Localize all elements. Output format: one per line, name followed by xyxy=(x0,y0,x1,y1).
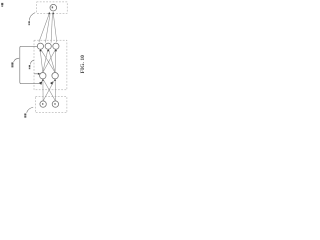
node H1a xyxy=(37,43,43,49)
sheet header fragment (tiny rotated text, top-left) xyxy=(1,3,3,7)
node H1c xyxy=(53,43,59,49)
label 1006 leader arc (to hidden box) xyxy=(30,60,34,64)
svg-text:FIG. 10: FIG. 10 xyxy=(80,55,86,74)
wire lattice row2 to row1 (6 strokes) xyxy=(40,50,56,73)
label 1008 blob xyxy=(11,62,13,67)
input node X2 xyxy=(52,101,58,107)
short input arrow into node H2a xyxy=(34,73,38,75)
hidden layers dashed box B2 xyxy=(34,40,67,90)
node H1b xyxy=(45,43,51,49)
label 1004 blob xyxy=(24,114,26,118)
input layer dashed box B3 xyxy=(35,97,67,113)
mark inside output node xyxy=(52,6,53,8)
label 1010 blob xyxy=(28,21,30,25)
node H2b xyxy=(52,73,58,79)
input node X1 xyxy=(40,101,46,107)
output layer dashed box B1 xyxy=(37,2,68,13)
mark inside X2 xyxy=(54,103,55,105)
mark inside X1 xyxy=(42,103,43,105)
arrowhead of feedback wire toward node H2a xyxy=(39,81,42,85)
wire fan row1 to output node (4 strokes) xyxy=(39,14,57,42)
label 1010 leader arc (to output box) xyxy=(29,13,35,21)
arrowheads into row2 nodes xyxy=(42,79,56,85)
recurrent feedback wire (left loop) xyxy=(20,46,40,83)
arrowheads into row1 nodes xyxy=(39,49,57,51)
label 1008 leader arc (to feedback wire) xyxy=(14,58,20,62)
label 1006 blob xyxy=(29,65,31,69)
node H2a xyxy=(40,73,46,79)
arrowheads into output node xyxy=(48,12,54,15)
output node xyxy=(50,4,57,11)
wire cross input to row2 (4 strokes) xyxy=(43,79,56,101)
label 1004 leader arc (to input box) xyxy=(27,107,34,113)
